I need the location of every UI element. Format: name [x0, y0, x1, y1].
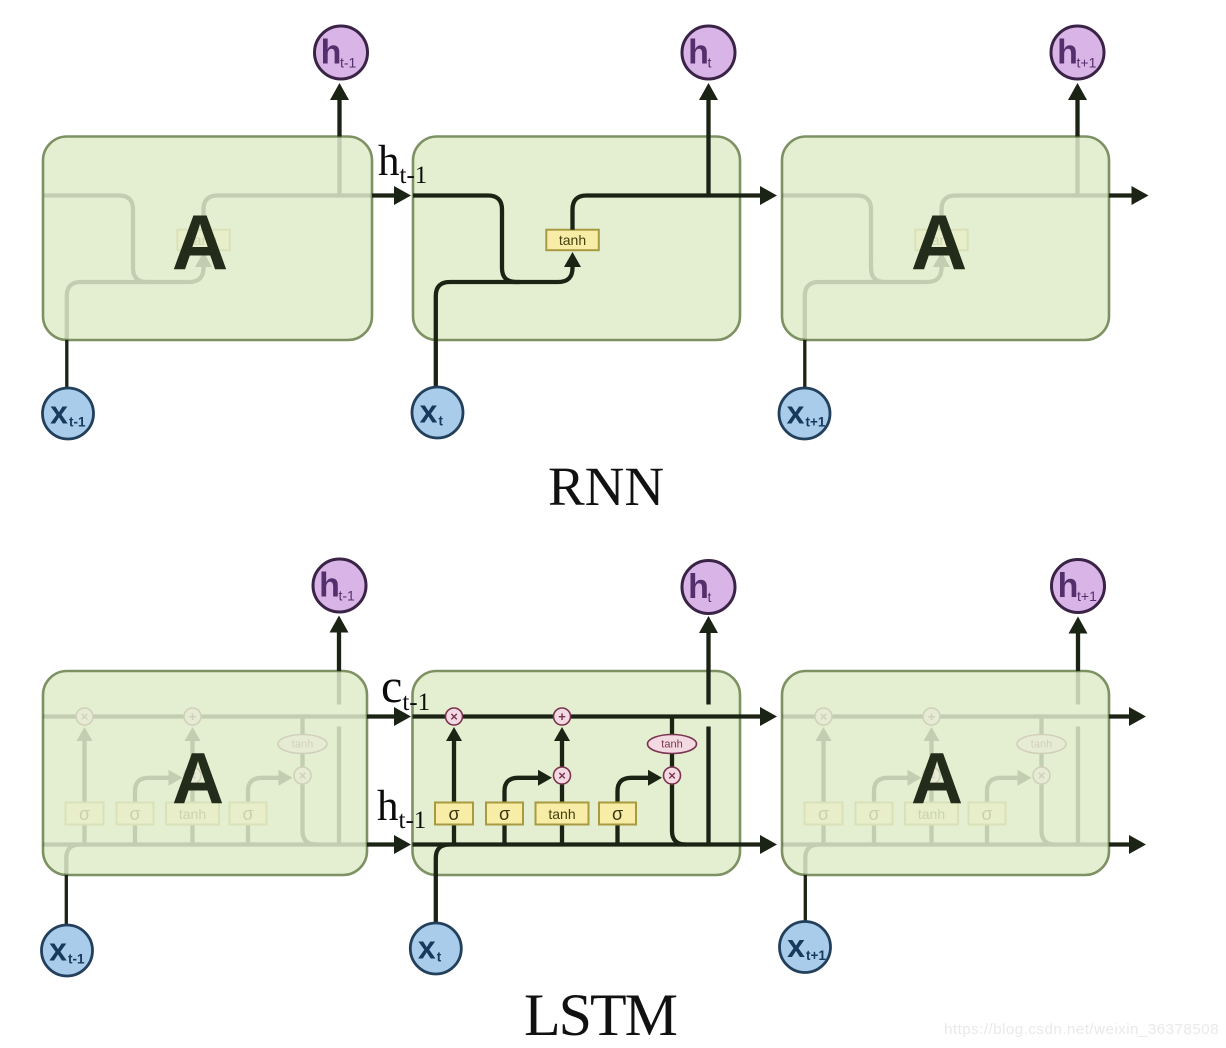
node x(t) RNN: [412, 387, 463, 438]
node x(t) LSTM: [410, 923, 461, 974]
wire h-branch up to h output (below gap): [1076, 727, 1080, 845]
svg-text:σ: σ: [981, 804, 992, 824]
wire h-branch up to h output (below gap): [337, 727, 341, 845]
svg-text:×: ×: [1038, 768, 1046, 783]
svg-text:+: +: [928, 709, 936, 724]
wire multiply-3 down to h-line: [303, 783, 317, 845]
wire h-branch up to h output (above gap): [337, 671, 341, 705]
arrowhead into multiply-2: [908, 770, 922, 786]
arrow LSTM c flow cell t-1 to cell t: [367, 714, 394, 718]
wire c-line: [413, 714, 741, 718]
arrow LSTM h flow cell t-1 to cell t: [367, 842, 394, 846]
op tanh oval: [648, 735, 697, 754]
wire x-in rising from cell bottom: [67, 282, 151, 340]
svg-text:x: x: [420, 394, 438, 430]
wire multiply-2 up to add: [560, 741, 564, 768]
svg-text:tanh: tanh: [661, 739, 682, 751]
svg-text:σ: σ: [448, 804, 459, 824]
ghost interior RNN cell t+1: [782, 137, 1109, 341]
svg-text:t+1: t+1: [806, 415, 826, 430]
arrow RNN cell t-1 to h(t-1): [337, 100, 341, 137]
svg-text:t+1: t+1: [806, 948, 826, 963]
cell box RNN A t: [413, 137, 740, 341]
arrow RNN h flow cell t out: [740, 193, 761, 197]
svg-text:tanh: tanh: [1031, 739, 1052, 751]
cell box RNN A t-1: [43, 137, 372, 341]
svg-text:+: +: [189, 709, 197, 724]
gate sigma-2: [117, 803, 154, 825]
svg-text:A: A: [172, 198, 228, 286]
arrowhead into tanh: [195, 252, 212, 267]
wire forget-gate stem: [821, 741, 825, 845]
op multiply-2: [184, 767, 201, 784]
svg-text:A: A: [172, 739, 224, 819]
wire output-gate stem curving into multiply-3: [618, 778, 650, 845]
op multiply-3: [1033, 767, 1050, 784]
svg-text:σ: σ: [242, 804, 253, 824]
arrow RNN cell t+1 to h(t+1): [1075, 100, 1079, 137]
wire h-branch up to h output (above gap): [1076, 671, 1080, 705]
wire RNN x(t) stub: [434, 340, 438, 388]
wire forget-gate stem: [452, 741, 456, 845]
arrowhead into add: [924, 727, 940, 741]
wire branch up to h output: [706, 137, 710, 196]
wire x-in rising from cell bottom: [436, 282, 520, 340]
cell box LSTM A t: [413, 671, 741, 875]
svg-text:RNN: RNN: [548, 456, 664, 517]
op multiply-2: [923, 767, 940, 784]
svg-text:h: h: [1057, 34, 1078, 72]
node h(t) LSTM: [682, 561, 735, 614]
svg-text:σ: σ: [499, 804, 510, 824]
wire output-gate stem curving into multiply-3: [248, 778, 280, 845]
interior LSTM cell t (active): [413, 671, 741, 875]
svg-text:σ: σ: [79, 804, 90, 824]
node h(t+1) RNN: [1051, 26, 1104, 79]
wire multiply-2 up to add: [929, 741, 933, 768]
arrowhead into multiply-1: [77, 727, 93, 741]
arrow LSTM cell t-1 to h(t-1): [337, 632, 341, 671]
wire h-in horizontal entering cell: [413, 196, 573, 283]
gate sigma-1: [805, 803, 843, 825]
wire branch up to h output: [337, 137, 341, 196]
wire multiply-2 up to add: [190, 741, 194, 768]
svg-text:σ: σ: [868, 804, 879, 824]
arrowhead into add: [554, 727, 570, 741]
arrowhead into multiply-3: [1018, 770, 1032, 786]
arrow RNN h flow cell t+1 out: [1109, 193, 1132, 197]
svg-text:x: x: [418, 930, 436, 966]
tanh activation box: [915, 230, 968, 251]
svg-text:t-1: t-1: [69, 415, 86, 430]
svg-text:tanh: tanh: [292, 739, 313, 751]
arrow RNN h flow cell t-1 to cell t: [372, 193, 395, 197]
gate sigma-3: [969, 803, 1006, 825]
arrowhead into tanh: [933, 252, 950, 267]
cell box LSTM A t-1: [43, 671, 367, 875]
ghost interior LSTM cell t+1: [782, 671, 1110, 875]
svg-text:tanh: tanh: [559, 232, 586, 248]
gate sigma-3: [230, 803, 267, 825]
svg-text:×: ×: [81, 709, 89, 724]
wire x-in rising from cell bottom: [805, 282, 889, 340]
svg-text:x: x: [787, 395, 805, 431]
interior RNN cell t (active): [413, 137, 740, 341]
wire LSTM x(t-1) stub: [65, 875, 68, 925]
arrow LSTM cell t to h(t): [706, 633, 710, 671]
arrowhead into tanh: [564, 252, 581, 267]
svg-text:tanh: tanh: [548, 806, 575, 822]
wire candidate tanh stem: [190, 783, 194, 845]
op multiply-1 on c-line: [76, 708, 93, 725]
op multiply-2: [554, 767, 571, 784]
arrowhead into multiply-2: [538, 770, 552, 786]
arrowhead into multiply-1: [816, 727, 832, 741]
gate sigma-1: [435, 803, 473, 825]
svg-text:t: t: [439, 414, 444, 429]
node h(t-1) LSTM: [313, 559, 366, 612]
svg-text:t: t: [708, 55, 712, 71]
svg-text:t-1: t-1: [340, 55, 357, 71]
wire x-in rising from cell bottom: [436, 845, 450, 876]
svg-text:h: h: [321, 34, 342, 72]
wire LSTM x(t+1) stub: [804, 875, 807, 922]
svg-text:t+1: t+1: [1077, 55, 1097, 71]
node h(t+1) LSTM: [1052, 560, 1105, 613]
node x(t-1) RNN: [43, 388, 94, 439]
svg-text:h: h: [319, 567, 340, 605]
svg-text:A: A: [911, 739, 963, 819]
wire candidate tanh stem: [929, 783, 933, 845]
arrow LSTM c flow cell t out: [740, 714, 761, 718]
wire LSTM x(t) stub: [434, 875, 438, 925]
op multiply-1 on c-line: [446, 708, 463, 725]
arrowhead into add: [185, 727, 201, 741]
op tanh oval: [1017, 735, 1066, 754]
wire h-branch up to h output (above gap): [706, 671, 710, 705]
svg-text:x: x: [50, 395, 68, 431]
node h(t-1) RNN: [315, 26, 368, 79]
node x(t-1) LSTM: [42, 925, 93, 976]
arrow LSTM cell t+1 to h(t+1): [1076, 634, 1080, 672]
wire x-in rising from cell bottom: [66, 845, 80, 876]
wire input-gate stem curving into multiply-2: [874, 778, 909, 845]
gate sigma-2: [486, 803, 523, 825]
svg-text:LSTM: LSTM: [524, 982, 677, 1048]
wire h-branch up to h output (below gap): [706, 727, 710, 845]
wire c-line branch down through tanh oval into multiply-3: [300, 717, 304, 769]
gate candidate tanh: [905, 803, 958, 825]
svg-text:×: ×: [820, 709, 828, 724]
gate candidate tanh: [166, 803, 219, 825]
gate sigma-1: [66, 803, 104, 825]
wire c-line: [43, 714, 371, 718]
wire tanh-out to right edge: [204, 196, 372, 230]
wire h-in horizontal entering cell: [782, 196, 942, 283]
gate sigma-3: [599, 803, 636, 825]
wire h-in horizontal entering cell: [44, 196, 204, 283]
arrowhead into multiply-2: [169, 770, 183, 786]
svg-text:t+1: t+1: [1077, 588, 1097, 604]
svg-text:σ: σ: [129, 804, 140, 824]
wire h-line: [43, 842, 371, 846]
arrowhead into multiply-1: [446, 727, 462, 741]
cell box LSTM A t+1: [782, 671, 1109, 875]
wire h-line: [413, 842, 741, 846]
svg-text:×: ×: [450, 709, 458, 724]
arrowhead into multiply-3: [648, 770, 662, 786]
wire RNN x(t-1) stub: [65, 340, 68, 388]
svg-text:https://blog.csdn.net/weixin_3: https://blog.csdn.net/weixin_36378508: [944, 1021, 1219, 1038]
svg-text:×: ×: [299, 768, 307, 783]
svg-text:h: h: [688, 34, 709, 72]
arrow RNN cell t to h(t): [706, 100, 710, 137]
wire RNN x(t+1) stub: [803, 340, 806, 388]
wire c-line: [782, 714, 1110, 718]
ghost interior LSTM cell t-1: [43, 671, 371, 875]
svg-text:A: A: [911, 198, 967, 286]
svg-text:t: t: [708, 589, 712, 605]
cell box RNN A t+1: [782, 137, 1109, 341]
svg-text:t-1: t-1: [339, 588, 356, 604]
wire candidate tanh stem: [560, 783, 564, 845]
svg-text:+: +: [558, 709, 566, 724]
wire forget-gate stem: [82, 741, 86, 845]
wire h-line: [782, 842, 1110, 846]
arrow LSTM h flow cell t out: [740, 842, 761, 846]
op add on c-line: [184, 708, 201, 725]
svg-text:x: x: [49, 932, 67, 968]
wire c-line branch down through tanh oval into multiply-3: [670, 717, 674, 769]
op add on c-line: [554, 708, 571, 725]
wire tanh-out to right edge: [573, 196, 741, 230]
op multiply-1 on c-line: [815, 708, 832, 725]
ghost interior RNN cell t-1: [44, 137, 371, 341]
wire c-line branch down through tanh oval into multiply-3: [1039, 717, 1043, 769]
wire branch up to h output: [1075, 137, 1079, 196]
gate sigma-2: [856, 803, 893, 825]
arrow LSTM h flow cell t+1 out: [1109, 842, 1130, 846]
wire multiply-3 down to h-line: [1042, 783, 1056, 845]
gate candidate tanh: [536, 803, 589, 825]
node x(t+1) LSTM: [780, 922, 831, 973]
arrowhead into multiply-3: [279, 770, 293, 786]
svg-text:h: h: [1058, 567, 1079, 605]
svg-text:x: x: [787, 928, 805, 964]
tanh activation box: [546, 230, 599, 251]
wire tanh-out to right edge: [942, 196, 1110, 230]
svg-text:σ: σ: [818, 804, 829, 824]
wire input-gate stem curving into multiply-2: [135, 778, 170, 845]
wire input-gate stem curving into multiply-2: [505, 778, 540, 845]
svg-text:×: ×: [558, 768, 566, 783]
op multiply-3: [664, 767, 681, 784]
svg-text:t-1: t-1: [68, 952, 85, 967]
arrow LSTM c flow cell t+1 out: [1109, 714, 1130, 718]
wire output-gate stem curving into multiply-3: [987, 778, 1019, 845]
op add on c-line: [923, 708, 940, 725]
svg-text:×: ×: [668, 768, 676, 783]
node h(t) RNN: [682, 26, 735, 79]
node x(t+1) RNN: [779, 388, 830, 439]
wire x-in rising from cell bottom: [805, 845, 819, 876]
svg-text:h: h: [688, 568, 709, 606]
wire multiply-3 down to h-line: [672, 783, 686, 845]
tanh activation box: [177, 230, 230, 251]
svg-text:σ: σ: [612, 804, 623, 824]
op multiply-3: [294, 767, 311, 784]
svg-text:t: t: [437, 950, 442, 965]
op tanh oval: [278, 735, 327, 754]
